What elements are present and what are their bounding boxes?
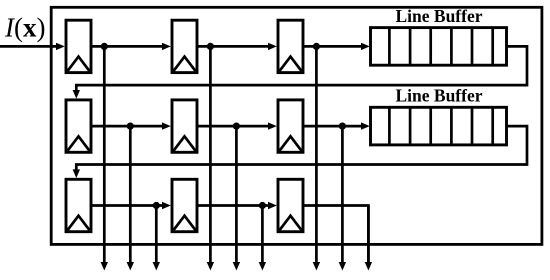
- wire R13 to line buffer 1: [303, 43, 370, 50]
- register R32 (row3 col2 flip-flop): [172, 179, 197, 231]
- svg-text:Line Buffer: Line Buffer: [395, 85, 482, 105]
- junction dot node w13: [313, 43, 320, 50]
- input wire I(x) into register R11: [0, 43, 65, 50]
- register R11 (row1 col1 flip-flop): [66, 20, 91, 72]
- register R12 (row1 col2 flip-flop): [172, 20, 197, 72]
- svg-text:Line Buffer: Line Buffer: [395, 6, 482, 26]
- junction dot node w12: [207, 43, 214, 50]
- junction dot node w11: [101, 43, 108, 50]
- register R21 (row2 col1 flip-flop): [66, 100, 91, 152]
- output tap wire w23 down: [339, 126, 346, 270]
- register R23 (row2 col3 flip-flop): [278, 100, 303, 152]
- junction dot node w23: [339, 123, 346, 130]
- junction dot node w21: [127, 123, 134, 130]
- wire line buffer 1 wrap-around to register R21: [73, 46, 527, 98]
- output tap wire w31 down: [153, 206, 160, 271]
- wire R31 to R32: [91, 202, 171, 209]
- wire R32 to R33: [197, 202, 277, 209]
- input label I(x): [4, 12, 46, 42]
- output tap wire w33 down: [365, 206, 372, 271]
- register R33 (row3 col3 flip-flop): [278, 179, 303, 231]
- output tap wire w32 down: [259, 206, 266, 271]
- output tap wire w21 down: [127, 126, 134, 270]
- output tap wire w13 down: [313, 46, 320, 270]
- line buffer 1 (FIFO cells): [371, 28, 507, 66]
- wire R23 to line buffer 2: [303, 122, 370, 129]
- register R13 (row1 col3 flip-flop): [278, 20, 303, 72]
- Line Buffer 2 label: [395, 85, 482, 105]
- output tap wire w11 down: [101, 46, 108, 270]
- wire R12 to R13: [197, 43, 277, 50]
- wire R33 output elbow down: [303, 206, 368, 263]
- svg-text:I(x): I(x): [4, 12, 46, 42]
- wire line buffer 2 wrap-around to register R31: [73, 126, 527, 178]
- wire R22 to R23: [197, 122, 277, 129]
- junction dot node w22: [233, 123, 240, 130]
- outer enclosure box: [51, 7, 542, 244]
- wire R11 to R12: [91, 43, 171, 50]
- junction dot node w31: [153, 202, 160, 209]
- wire R21 to R22: [91, 122, 171, 129]
- output tap wire w12 down: [207, 46, 214, 270]
- junction dot node w32: [259, 202, 266, 209]
- register R22 (row2 col2 flip-flop): [172, 100, 197, 152]
- line buffer 2 (FIFO cells): [371, 107, 507, 145]
- output tap wire w22 down: [233, 126, 240, 270]
- register R31 (row3 col1 flip-flop): [66, 179, 91, 231]
- Line Buffer 1 label: [395, 6, 482, 26]
